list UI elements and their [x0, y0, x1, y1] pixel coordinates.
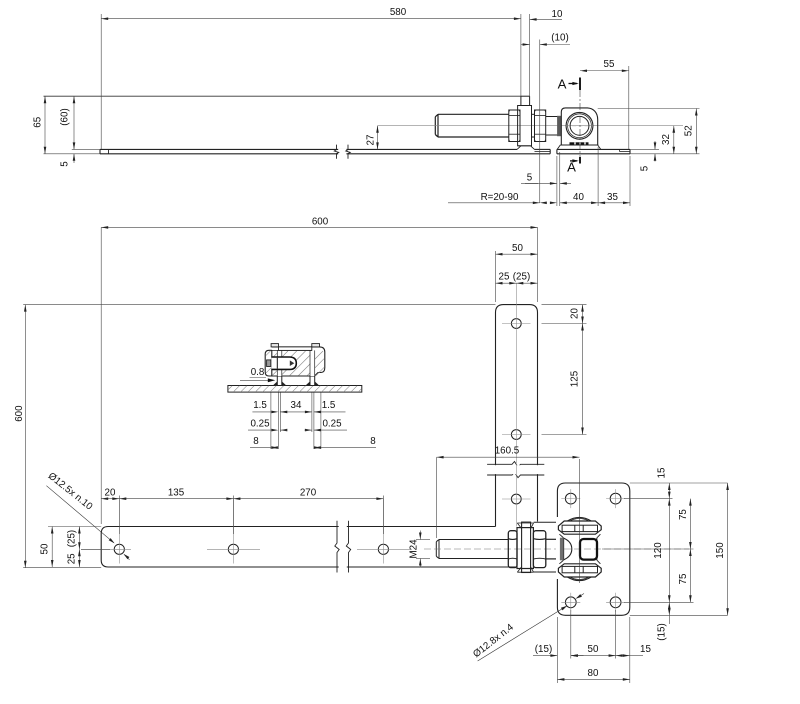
dim label (15) bottom	[535, 644, 552, 655]
dim 52 line	[695, 109, 698, 154]
ext line 55 right	[628, 66, 630, 149]
svg-text:(10): (10)	[551, 33, 568, 44]
dim 5 right	[654, 141, 657, 162]
dim label 270	[300, 487, 317, 498]
dim label 75 bottom	[678, 573, 689, 584]
plan strap break right	[346, 521, 350, 573]
section left cap notch	[267, 360, 271, 367]
section stud right	[312, 344, 320, 347]
ext hole1 up	[118, 496, 120, 535]
svg-text:8: 8	[370, 436, 376, 447]
dim 8 right	[314, 436, 376, 449]
ext (60) bottom	[72, 148, 100, 150]
dim 125 vstrap	[542, 324, 587, 435]
svg-text:600: 600	[14, 405, 25, 422]
dim label 15 bottom	[640, 644, 651, 655]
section bore	[271, 357, 296, 369]
knuckle mask	[556, 517, 560, 579]
dim 75 top	[689, 499, 692, 549]
ext foot left x560	[559, 152, 561, 206]
dim 1.5 left	[252, 400, 278, 413]
svg-text:50: 50	[40, 543, 51, 554]
dim label 20 strap	[105, 487, 116, 498]
vertical strap outline	[496, 305, 538, 527]
svg-text:20: 20	[570, 308, 581, 319]
dim 50 strap	[51, 527, 54, 568]
dim 0.25 right	[305, 419, 348, 432]
dim label 20 vstrap	[570, 308, 581, 319]
svg-text:1.5: 1.5	[322, 400, 336, 411]
dim label 50 top	[512, 243, 523, 254]
bracket eye chamfer ring	[568, 114, 592, 138]
dim 5 left line	[73, 154, 76, 163]
plate hole 571,499	[561, 489, 580, 508]
ext base left x557	[556, 156, 558, 206]
svg-text:25: 25	[67, 553, 78, 564]
svg-text:0.8: 0.8	[251, 367, 265, 378]
svg-text:5: 5	[60, 161, 71, 167]
dim label 50 bottom	[588, 644, 599, 655]
ext hole3 up	[382, 496, 384, 535]
dim 580 line	[101, 17, 521, 20]
svg-text:55: 55	[604, 59, 615, 70]
dim label 10	[552, 9, 563, 20]
bracket serration teeth	[570, 142, 589, 144]
plate hole 571,602	[561, 593, 580, 612]
dim label 55	[604, 59, 615, 70]
svg-text:(15): (15)	[657, 623, 668, 640]
knuckle clevis jaw	[564, 538, 572, 559]
svg-text:10: 10	[552, 9, 563, 20]
ext body right x598	[597, 147, 599, 206]
strap top edge	[100, 148, 517, 150]
dim 160.5	[437, 456, 580, 538]
dim label 5 right	[640, 165, 651, 171]
dim 10 line	[530, 18, 562, 21]
svg-text:32: 32	[661, 134, 672, 145]
dim label 5 gap	[521, 173, 538, 184]
svg-text:20: 20	[105, 487, 116, 498]
strap break mark right	[346, 145, 350, 159]
strap top edge right segment	[535, 148, 551, 150]
ext plate bottom right	[630, 614, 728, 616]
dim 135 strap	[119, 497, 233, 500]
svg-text:0.25: 0.25	[322, 419, 342, 430]
svg-text:15: 15	[640, 644, 651, 655]
dim (15) bottom	[533, 654, 584, 657]
hex nut right	[535, 110, 546, 142]
strap break gap	[338, 149, 346, 155]
strap right end step line	[535, 151, 551, 153]
dim 20 strap	[101, 497, 119, 500]
dim label 600 left	[14, 405, 25, 422]
dim label 160.5	[495, 446, 520, 457]
ext row2 right	[624, 601, 694, 603]
ext 65 bottom	[44, 153, 101, 155]
section washer bottom line	[271, 349, 312, 351]
ext hole1 left	[81, 548, 110, 550]
svg-text:34: 34	[291, 400, 302, 411]
plan strap break gap	[339, 524, 347, 569]
dim label 600 top	[312, 217, 329, 228]
svg-text:A: A	[567, 160, 576, 175]
svg-text:75: 75	[678, 573, 689, 584]
dim label 125	[570, 370, 581, 387]
dim 80	[557, 678, 629, 681]
ext plan bottom left	[23, 567, 101, 569]
plate hole 616,602	[606, 593, 625, 612]
plan hex nut right	[533, 531, 545, 568]
plan strap break left	[335, 521, 339, 573]
section label A top	[558, 77, 567, 92]
section stud left	[271, 344, 278, 347]
eye horizontal centerline	[566, 125, 593, 127]
dim 25 (25) line	[496, 282, 538, 285]
strap hole 2	[228, 499, 238, 564]
section line A-A	[579, 78, 581, 164]
plate hole 616,499	[606, 489, 625, 508]
ext plan top edge	[23, 304, 495, 306]
dim M24	[416, 531, 430, 568]
dim 600 left line	[24, 305, 27, 568]
plan rod dashed centerline	[424, 548, 689, 550]
boss washer block	[518, 106, 532, 146]
vertical strap hole centerline	[515, 283, 517, 527]
dim 270 strap	[233, 497, 383, 500]
knuckle shadow	[560, 538, 564, 561]
dim label 120	[653, 542, 664, 559]
dim 8 left	[250, 436, 278, 449]
svg-text:(25): (25)	[67, 530, 78, 547]
section barrel left cap	[265, 350, 272, 376]
dim 65 line	[44, 96, 47, 154]
leader hole dia 12.8	[478, 594, 584, 662]
section label A bottom	[567, 160, 576, 175]
dim 0.25 left	[248, 419, 287, 432]
ext base bottom right	[630, 153, 700, 155]
dim label (10)	[551, 33, 568, 44]
gate frame top edge line	[44, 95, 521, 97]
svg-text:125: 125	[570, 370, 581, 387]
dim 34	[280, 400, 312, 413]
dim 580 extension left	[100, 14, 102, 149]
dim (25) strap	[78, 527, 81, 550]
svg-text:80: 80	[588, 668, 599, 679]
svg-text:52: 52	[684, 125, 695, 136]
vertical strap break	[487, 462, 544, 478]
hex nut left	[509, 110, 520, 142]
ext row1 right	[624, 498, 673, 500]
ext base top right	[630, 148, 659, 150]
rod stub to bracket	[546, 117, 562, 136]
mounting plate outline	[557, 483, 629, 615]
section arrow top	[569, 82, 579, 85]
dim 5 gap line	[525, 182, 571, 185]
leader label 12.8	[471, 622, 516, 661]
base plate end step	[620, 149, 631, 151]
svg-text:1.5: 1.5	[253, 400, 267, 411]
svg-text:135: 135	[168, 487, 185, 498]
dim label 25 strap	[67, 553, 78, 564]
svg-text:0.25: 0.25	[250, 419, 270, 430]
rod gap segment	[532, 114, 535, 137]
svg-text:(15): (15)	[535, 644, 552, 655]
bracket eye outer circle	[566, 112, 593, 139]
strap holes horizontal centerline	[81, 548, 410, 550]
leader hole dia 12.5	[46, 486, 129, 560]
weld flare under boss	[517, 146, 535, 150]
knuckle vertical centerline	[579, 459, 581, 583]
dim label (15) right	[657, 623, 668, 640]
knuckle top flange	[558, 517, 601, 534]
knuckle neck chamfers	[559, 534, 600, 564]
ext line x540	[539, 40, 541, 204]
svg-text:40: 40	[573, 192, 584, 203]
section leg left	[273, 376, 287, 386]
svg-text:25: 25	[499, 272, 510, 283]
bracket body outline	[561, 108, 597, 145]
bracket eye bore	[570, 116, 589, 135]
dim label 15 right	[657, 467, 668, 478]
dim (15) right	[668, 602, 671, 624]
dim label 27	[366, 135, 377, 146]
dim label M24	[409, 539, 420, 559]
svg-text:75: 75	[678, 509, 689, 520]
ext plate right x630	[629, 156, 631, 206]
svg-text:5: 5	[640, 165, 651, 171]
vertical strap hole 2	[502, 430, 531, 440]
svg-text:270: 270	[300, 487, 317, 498]
section base plate	[228, 386, 362, 393]
ext hole col left	[570, 610, 572, 659]
dim label R=20-90	[481, 192, 519, 203]
dim label 25	[499, 272, 510, 283]
plan hex nut left	[508, 531, 517, 568]
section ext lines	[271, 393, 321, 450]
dim 15 right	[668, 483, 671, 499]
svg-text:M24: M24	[409, 539, 420, 559]
svg-text:A: A	[558, 77, 567, 92]
leader label 12.5	[46, 471, 95, 513]
dim (60) line	[73, 96, 76, 149]
ext plate top right	[630, 482, 728, 484]
dim 0.8	[240, 367, 275, 382]
plan strap bottom right segment	[534, 571, 558, 573]
dim label 52	[684, 125, 695, 136]
svg-text:65: 65	[33, 116, 44, 127]
dim 50 bottom	[571, 654, 616, 657]
dim R=20-90 line	[448, 202, 557, 205]
section leg right	[306, 376, 320, 386]
section barrel outline	[272, 347, 325, 376]
svg-text:27: 27	[366, 135, 377, 146]
section arrow bottom	[570, 159, 579, 162]
rod end shadow band	[557, 116, 561, 136]
dim 25 strap	[78, 549, 81, 567]
plan rod stub	[546, 539, 560, 559]
ext center right	[602, 548, 694, 550]
dim 120	[668, 499, 671, 603]
dim 50 plan top	[496, 251, 538, 302]
strap left end weld joint	[108, 149, 110, 153]
dim 35 line	[598, 202, 630, 205]
dim label 65	[33, 116, 44, 127]
ext bracket top	[598, 108, 700, 110]
dim label 35	[607, 192, 618, 203]
dim 32 line	[673, 126, 676, 154]
svg-text:35: 35	[607, 192, 618, 203]
strap left end	[99, 149, 101, 153]
dim 150	[726, 483, 729, 615]
dim label 5 left	[60, 161, 71, 167]
svg-text:5: 5	[527, 173, 533, 184]
ext plate bl	[556, 617, 558, 683]
svg-text:8: 8	[253, 436, 259, 447]
dim label 580	[390, 7, 407, 18]
dim label 150	[715, 542, 726, 559]
leaf plate edge view	[521, 96, 530, 105]
strap break mark left	[334, 145, 338, 159]
svg-text:50: 50	[512, 243, 523, 254]
strap right end	[549, 149, 551, 153]
dim label 80	[588, 668, 599, 679]
strap bottom edge	[100, 153, 550, 155]
knuckle body sides	[564, 538, 597, 560]
ext line x521	[520, 14, 522, 96]
dim label (25) strap	[67, 530, 78, 547]
dim 15 bottom	[616, 654, 643, 657]
plan rod M24	[436, 540, 508, 559]
dim 55 line	[580, 70, 629, 73]
dim label (25)	[513, 272, 530, 283]
dim 600 top ext left	[100, 227, 102, 524]
strap hole 1	[114, 499, 124, 564]
section barrel hatch	[266, 351, 324, 376]
svg-text:580: 580	[390, 7, 407, 18]
dim 27 line	[376, 126, 379, 150]
svg-text:50: 50	[588, 644, 599, 655]
svg-text:600: 600	[312, 217, 329, 228]
svg-text:15: 15	[657, 467, 668, 478]
svg-text:(25): (25)	[513, 272, 530, 283]
dim label (60)	[60, 108, 71, 125]
svg-text:150: 150	[715, 542, 726, 559]
rod M24 side view	[435, 114, 509, 137]
ext hole col right	[615, 610, 617, 659]
knuckle pin block	[580, 539, 597, 560]
plan strap top right segment	[534, 521, 558, 523]
dim 1.5 right	[314, 400, 346, 413]
dim 600 top line	[101, 226, 537, 229]
ext strap top left	[48, 526, 101, 528]
plan leaf plate strip	[517, 522, 533, 572]
section stud lines through barrel	[277, 350, 314, 376]
rod centerline	[378, 125, 684, 127]
dim label 50 strap	[40, 543, 51, 554]
ext line x530	[529, 14, 531, 96]
plan strap outline	[101, 527, 516, 568]
strap hole 3	[378, 499, 388, 564]
knuckle bottom flange	[558, 564, 601, 581]
section top washer plate	[279, 347, 312, 351]
vertical strap hole 3	[502, 494, 531, 504]
svg-text:120: 120	[653, 542, 664, 559]
ext hole2 up	[232, 496, 234, 535]
plan boss washer block	[517, 528, 533, 569]
dim 75 bottom	[689, 549, 692, 602]
dim label 135	[168, 487, 185, 498]
dim label 32	[661, 134, 672, 145]
dim 600 top ext right	[537, 227, 539, 302]
dim 40 line	[560, 202, 598, 205]
vertical strap hole 1	[502, 319, 531, 329]
svg-text:R=20-90: R=20-90	[481, 192, 519, 203]
dim 20 vstrap	[542, 305, 587, 324]
bracket foot flares	[557, 145, 601, 149]
svg-text:(60): (60)	[60, 108, 71, 125]
bracket foot line	[560, 144, 598, 146]
dim label 40	[573, 192, 584, 203]
bracket base plate	[557, 149, 630, 153]
dim (10) line	[521, 43, 570, 46]
dim label 75 top	[678, 509, 689, 520]
svg-text:160.5: 160.5	[495, 446, 520, 457]
ext plate br	[629, 617, 631, 683]
